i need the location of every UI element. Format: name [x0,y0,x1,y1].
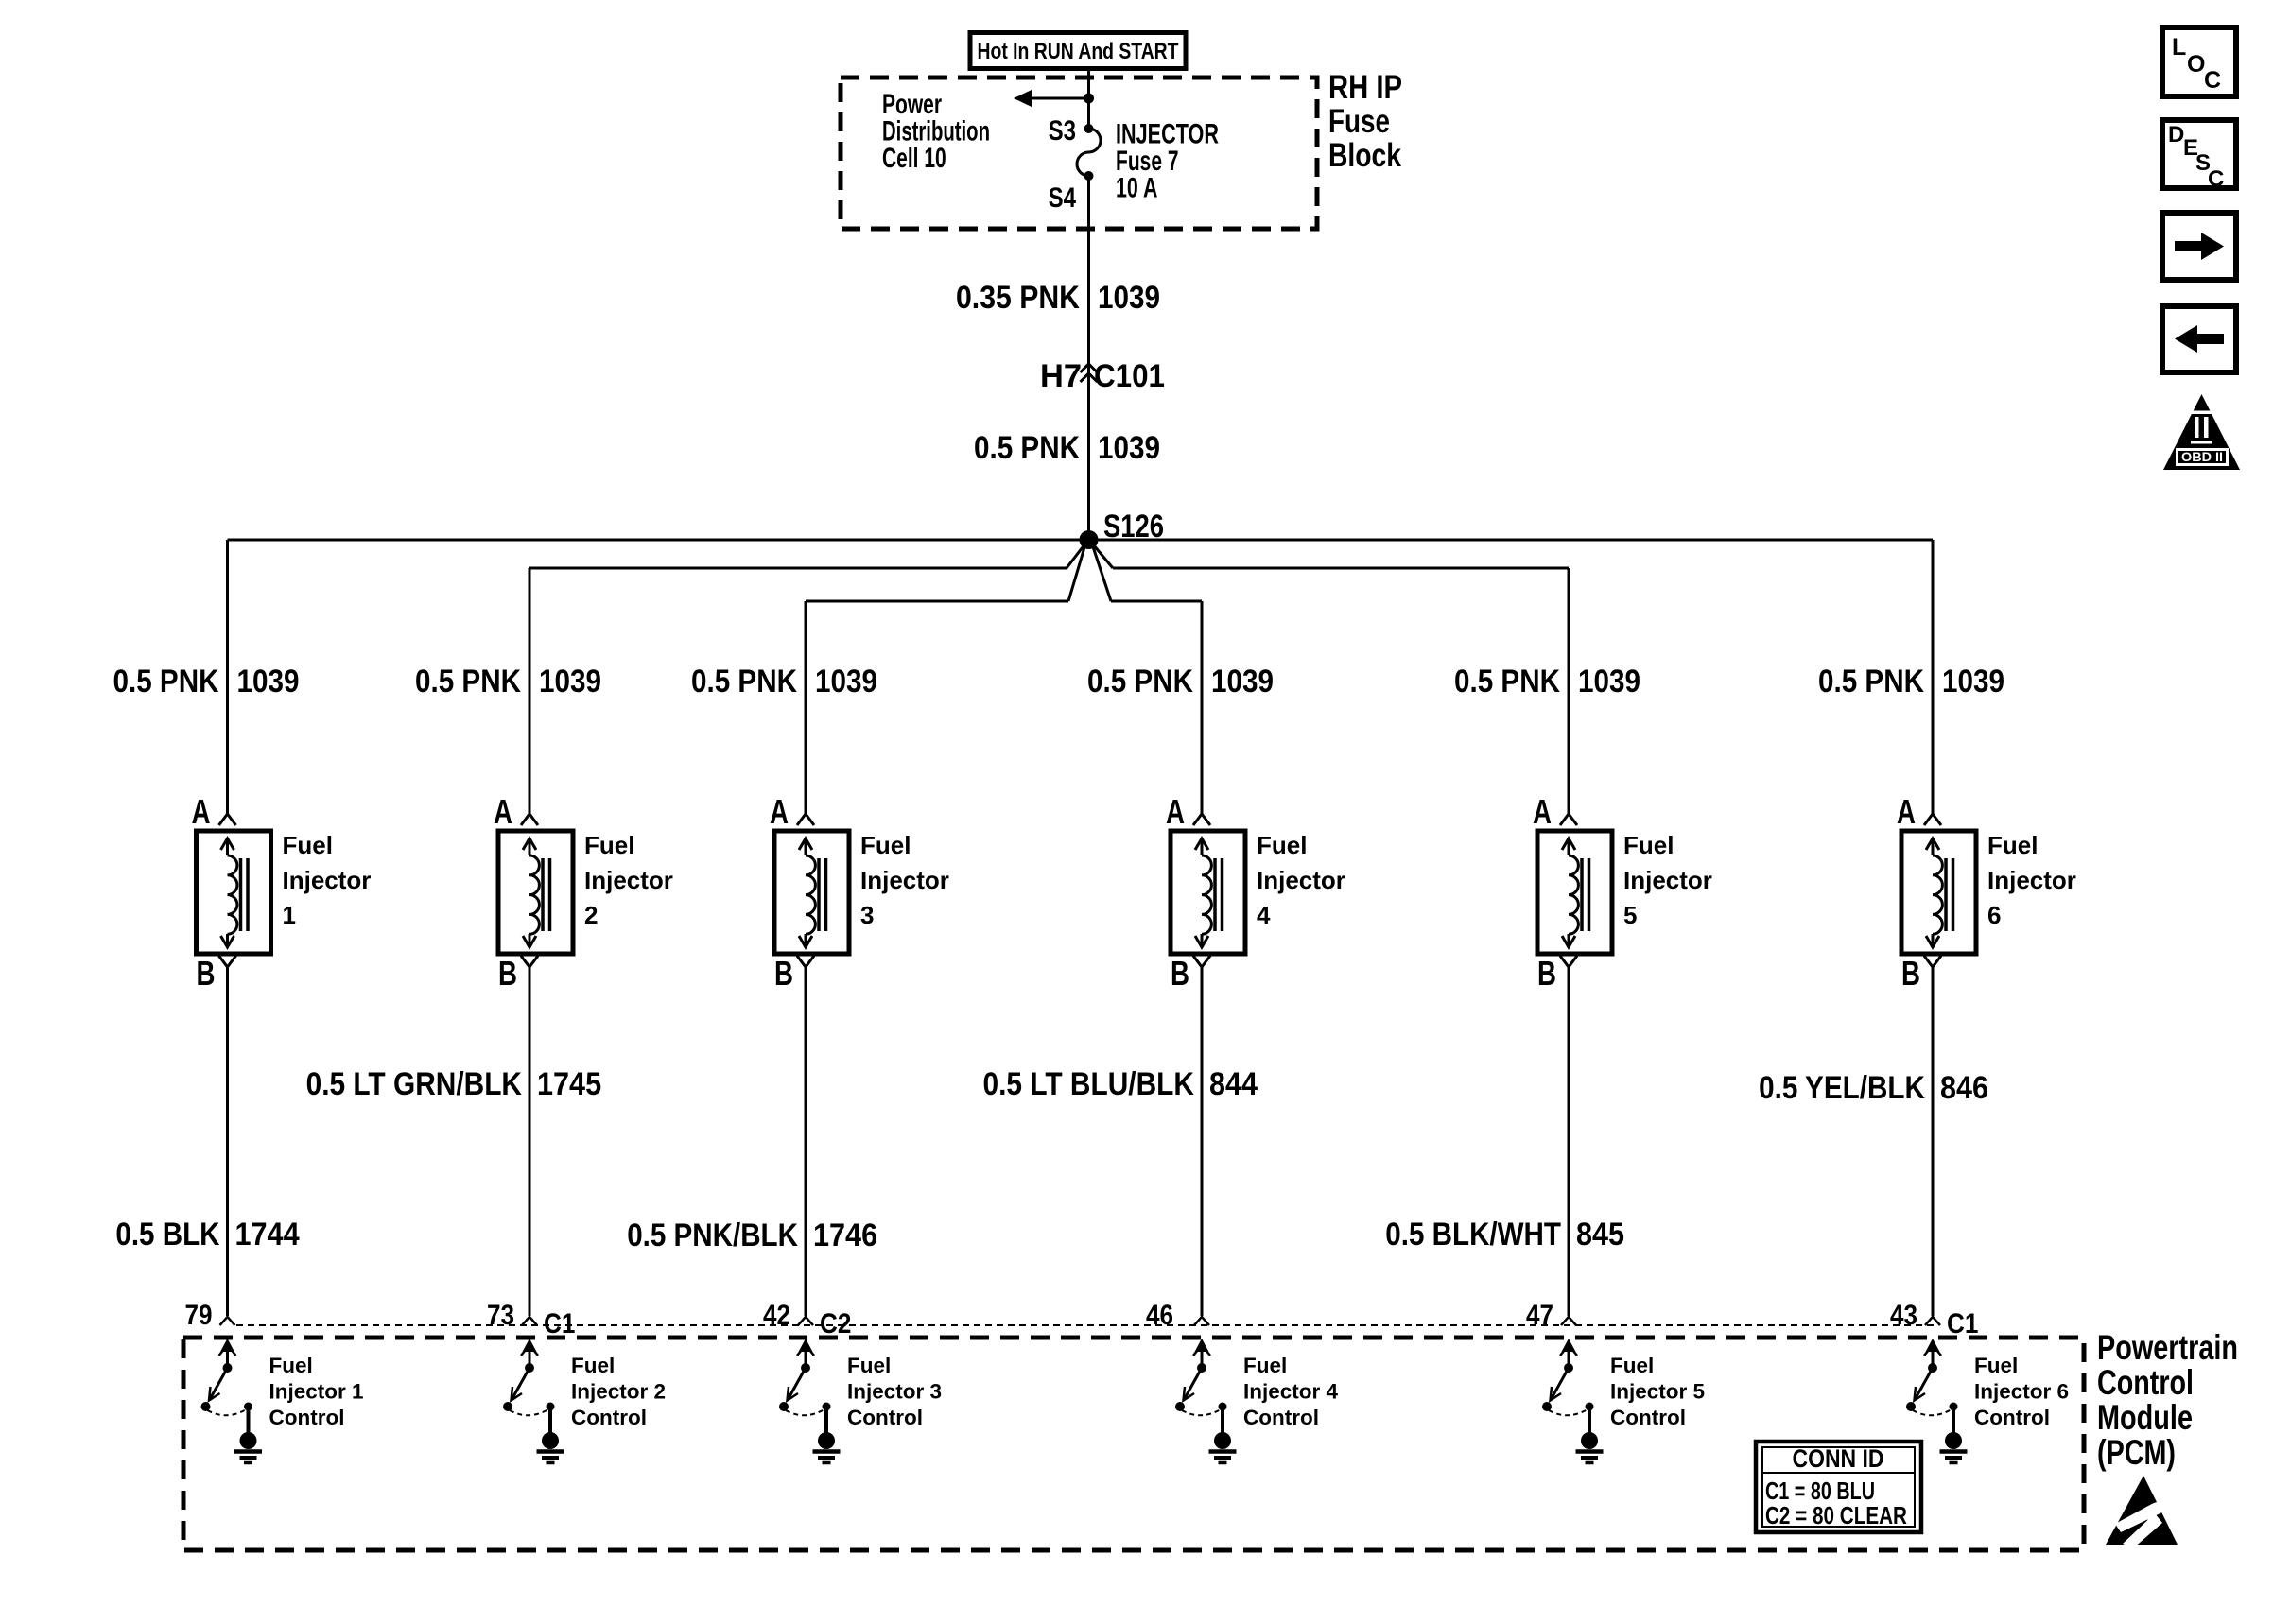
svg-text:(PCM): (PCM) [2097,1433,2176,1472]
svg-text:3: 3 [860,901,874,929]
svg-text:A: A [770,792,789,831]
svg-text:Fuel: Fuel [269,1354,313,1377]
svg-text:4: 4 [1257,901,1271,929]
svg-text:1039: 1039 [1098,430,1160,466]
wire: 0.5 BLK/WHT 845 injector 5 to PCM [1568,967,1570,1316]
svg-text:C: C [2208,166,2224,192]
icon: DESC box [2162,120,2236,188]
pin 46 of PCM (injector 4) [1194,1317,1209,1325]
fuel injector 5 (component) [1533,792,1712,993]
wire: 0.5 LT BLU/BLK 844 injector 4 to PCM [1201,967,1204,1316]
svg-text:B: B [197,954,216,993]
svg-text:845: 845 [1576,1217,1624,1253]
svg-text:Injector: Injector [860,866,949,894]
svg-text:0.5 PNK: 0.5 PNK [1818,664,1924,700]
svg-text:Fuel: Fuel [571,1354,615,1377]
svg-text:1039: 1039 [815,664,877,700]
svg-text:0.5 LT BLU/BLK: 0.5 LT BLU/BLK [983,1066,1195,1102]
svg-text:Fuel: Fuel [1974,1354,2018,1377]
wire: 0.5 PNK 1039 drop to injector 1 [226,540,229,814]
svg-text:846: 846 [1940,1070,1988,1106]
ESD sensitive device symbol [2106,1476,2178,1545]
svg-text:L: L [2172,34,2186,60]
icon: back arrow box [2162,306,2236,372]
svg-text:1: 1 [283,901,296,929]
node: left contact 3 [779,1402,789,1411]
svg-text:1039: 1039 [1942,664,2004,700]
svg-text:Injector: Injector [1623,866,1712,894]
svg-text:1745: 1745 [537,1066,601,1102]
svg-text:Control: Control [1610,1406,1686,1429]
wire: 0.5 PNK 1039 drop to injector 3 [805,601,807,814]
svg-text:1744: 1744 [235,1217,300,1253]
wire: 0.5 PNK 1039 drop to injector 4 [1201,601,1204,814]
ground (internal) 6 [1952,1408,1955,1433]
ground (internal) 3 [824,1408,828,1433]
wire: bus level 1 (injectors 1 and 6) [228,539,1934,542]
wire: 0.5 PNK 1039 drop to injector 5 [1568,568,1570,814]
svg-text:Powertrain: Powertrain [2097,1328,2238,1367]
svg-text:Control: Control [1243,1406,1319,1429]
svg-text:Injector 4: Injector 4 [1243,1380,1339,1404]
pin 79 of PCM (injector 1) [220,1317,235,1325]
svg-text:A: A [494,792,512,831]
svg-text:0.5 PNK/BLK: 0.5 PNK/BLK [627,1218,798,1253]
svg-text:Fuel: Fuel [847,1354,891,1377]
svg-text:0.35 PNK: 0.35 PNK [956,280,1080,316]
svg-text:844: 844 [1209,1066,1258,1102]
fuel injector 1 (component) [192,792,372,993]
svg-text:Injector 1: Injector 1 [269,1380,364,1404]
wire: bus level 3 left (injector 3) [806,600,1068,603]
wire: fuse feed vertical [1087,66,1090,129]
svg-text:C1: C1 [544,1308,575,1339]
svg-text:B: B [1171,954,1189,993]
node: switch pivot 1 [223,1363,233,1373]
svg-text:Block: Block [1328,137,1401,174]
svg-text:Control: Control [571,1406,647,1429]
svg-text:Fuel: Fuel [283,831,333,859]
svg-text:Injector 3: Injector 3 [847,1380,942,1404]
svg-text:RH IP: RH IP [1328,69,1402,106]
dashed throw arc 3 [786,1409,824,1415]
svg-text:46: 46 [1146,1300,1173,1331]
svg-text:S3: S3 [1049,115,1076,147]
svg-text:B: B [498,954,517,993]
node: right contact 5 [1586,1403,1594,1411]
switch lever 4 [1184,1368,1202,1400]
wire: 0.5 YEL/BLK 846 injector 6 to PCM [1932,967,1935,1316]
svg-text:B: B [774,954,793,993]
node: right contact 2 [547,1403,555,1411]
driver switch: fuel injector 6 control [1906,1339,2069,1463]
wire: 0.5 PNK 1039 drop to injector 6 [1932,540,1935,814]
svg-text:Module: Module [2097,1398,2193,1437]
svg-text:Fuse: Fuse [1328,103,1390,140]
svg-text:43: 43 [1890,1300,1917,1331]
svg-text:6: 6 [1987,901,2001,929]
driver switch: fuel injector 2 control [503,1339,666,1463]
svg-text:Injector 5: Injector 5 [1610,1380,1705,1404]
svg-text:1039: 1039 [1211,664,1274,700]
svg-text:47: 47 [1526,1300,1553,1331]
svg-text:Fuel: Fuel [584,831,634,859]
ground (internal) 4 [1221,1408,1224,1433]
svg-text:C2: C2 [820,1308,851,1339]
svg-text:0.5 YEL/BLK: 0.5 YEL/BLK [1759,1070,1925,1106]
pin 43/C1 of PCM (injector 6) [1925,1317,1940,1325]
svg-text:2: 2 [584,901,598,929]
svg-text:D: D [2168,122,2184,147]
svg-text:A: A [1166,792,1185,831]
node: right contact 4 [1219,1403,1227,1411]
node: right contact 3 [823,1403,831,1411]
svg-text:C2 = 80 CLEAR: C2 = 80 CLEAR [1765,1501,1907,1529]
svg-text:Fuel: Fuel [1610,1354,1654,1377]
svg-text:Cell 10: Cell 10 [882,143,946,174]
svg-text:1039: 1039 [1098,280,1160,316]
svg-text:1039: 1039 [1578,664,1640,700]
svg-text:1746: 1746 [813,1218,877,1253]
svg-text:Injector: Injector [1987,866,2076,894]
wire: 0.5 BLK 1744 injector 1 to PCM [226,967,229,1316]
svg-text:Fuel: Fuel [1623,831,1674,859]
svg-text:Control: Control [1974,1406,2050,1429]
node: left contact 4 [1175,1402,1185,1411]
svg-text:Injector 6: Injector 6 [1974,1380,2069,1404]
svg-text:O: O [2187,51,2205,78]
fuel injector 4 (component) [1166,792,1345,993]
driver switch: fuel injector 1 control [201,1339,364,1463]
wire: arrow to power distribution [1029,97,1089,100]
node: right contact 6 [1950,1403,1958,1411]
svg-text:0.5 PNK: 0.5 PNK [974,430,1080,466]
svg-text:Injector 2: Injector 2 [571,1380,666,1404]
wire: 0.5 PNK 1039 drop to injector 2 [529,568,531,814]
svg-text:1039: 1039 [539,664,601,700]
wire: 0.5 LT GRN/BLK 1745 injector 2 to PCM [529,967,531,1316]
ground (internal) 2 [548,1408,552,1433]
svg-text:1039: 1039 [237,664,300,700]
svg-text:Fuel: Fuel [1987,831,2038,859]
svg-text:S4: S4 [1049,182,1077,214]
svg-text:79: 79 [185,1300,213,1331]
svg-text:0.5 PNK: 0.5 PNK [691,664,797,700]
svg-text:A: A [192,792,211,831]
node: left contact 6 [1906,1402,1916,1411]
driver switch: fuel injector 4 control [1175,1339,1339,1463]
svg-text:42: 42 [763,1300,790,1331]
fuel injector 3 (component) [770,792,949,993]
dashed throw arc 2 [510,1409,548,1415]
node: switch pivot 2 [525,1363,534,1373]
svg-text:Injector: Injector [1257,866,1345,894]
switch lever 3 [788,1368,806,1400]
svg-text:C101: C101 [1094,358,1165,394]
Powertrain Control Module (dashed box) [183,1338,2084,1550]
node: left contact 2 [503,1402,512,1411]
svg-text:0.5 BLK: 0.5 BLK [115,1217,219,1253]
svg-text:0.5 LT GRN/BLK: 0.5 LT GRN/BLK [306,1066,523,1102]
switch lever 1 [210,1368,228,1400]
wire: bus level 2 right (injector 5) [1091,542,1114,568]
svg-text:B: B [1537,954,1556,993]
fuse F7 10A (element) [1077,129,1101,176]
svg-text:OBD II: OBD II [2181,449,2223,464]
wire: 0.5 PNK/BLK 1746 injector 3 to PCM [805,967,807,1316]
connector C101 pin H7 (inline connector chevrons) [1081,364,1098,372]
svg-text:Injector: Injector [584,866,673,894]
svg-text:H7: H7 [1040,358,1082,394]
switch lever 5 [1551,1368,1569,1400]
svg-text:B: B [1901,954,1920,993]
node: left contact 1 [201,1402,211,1411]
svg-text:C: C [2204,67,2221,94]
switch lever 6 [1915,1368,1933,1400]
ground (internal) 5 [1588,1408,1591,1433]
dashed throw arc 6 [1913,1409,1952,1415]
wire: bus level 2 left (injector 2) [529,567,1067,570]
fuel injector 2 (component) [494,792,673,993]
dashed throw arc 5 [1549,1409,1588,1415]
svg-text:Control: Control [847,1406,923,1429]
svg-text:Control: Control [2097,1363,2194,1402]
ground (internal) 1 [247,1408,251,1433]
svg-text:Injector: Injector [283,866,372,894]
node: switch pivot 4 [1197,1363,1206,1373]
node: switch pivot 3 [801,1363,810,1373]
RH IP Fuse Block (dashed box) [841,78,1317,229]
switch lever 2 [512,1368,529,1400]
node: right contact 1 [244,1403,252,1411]
svg-text:0.5 PNK: 0.5 PNK [1454,664,1560,700]
node: left contact 5 [1542,1402,1552,1411]
svg-text:Fuel: Fuel [860,831,911,859]
svg-text:0.5 PNK: 0.5 PNK [1087,664,1193,700]
svg-text:5: 5 [1623,901,1637,929]
icon: forward arrow box [2162,213,2236,280]
svg-text:Control: Control [269,1406,345,1429]
svg-text:A: A [1533,792,1552,831]
header box "Hot In RUN And START" [970,33,1186,69]
fuel injector 6 (component) [1897,792,2076,993]
connector dashed line (PCM header) [236,1324,1938,1326]
svg-text:CONN ID: CONN ID [1793,1444,1884,1473]
svg-text:A: A [1897,792,1916,831]
pin 47 of PCM (injector 5) [1561,1317,1576,1325]
driver switch: fuel injector 3 control [779,1339,942,1463]
svg-text:0.5 PNK: 0.5 PNK [415,664,521,700]
node: switch pivot 6 [1928,1363,1937,1373]
svg-text:Fuel: Fuel [1243,1354,1287,1377]
pin 73/C1 of PCM (injector 2) [522,1317,537,1325]
svg-text:73: 73 [487,1300,514,1331]
wire: 0.35 PNK 1039 from fuse to C101 [1087,176,1090,540]
pin 42/C2 of PCM (injector 3) [798,1317,813,1325]
node: switch pivot 5 [1564,1363,1573,1373]
wire: bus level 3 right (injector 4) [1092,543,1112,601]
svg-text:0.5 PNK: 0.5 PNK [113,664,219,700]
svg-text:C1: C1 [1947,1308,1978,1339]
icon: LOC box [2162,27,2236,96]
svg-text:0.5 BLK/WHT: 0.5 BLK/WHT [1385,1217,1561,1253]
svg-text:Fuel: Fuel [1257,831,1307,859]
svg-text:Hot In RUN And START: Hot In RUN And START [978,39,1179,64]
icon: OBD II triangle [2163,394,2240,470]
dashed throw arc 4 [1182,1409,1221,1415]
CONN ID table [1756,1442,1921,1532]
svg-text:10 A: 10 A [1116,173,1157,204]
node: feed junction [1084,94,1094,104]
driver switch: fuel injector 5 control [1542,1339,1705,1463]
dashed throw arc 1 [208,1409,247,1415]
